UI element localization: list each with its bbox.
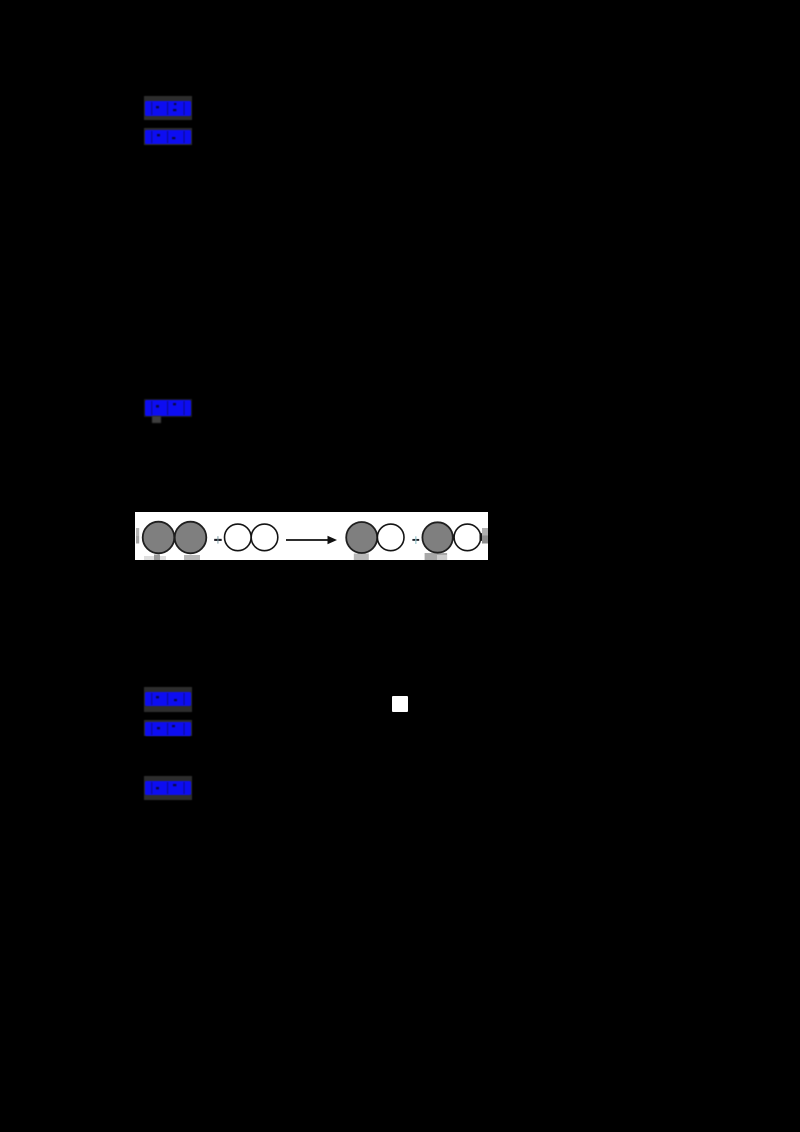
product2 white atom — [454, 524, 481, 551]
right edge dark contact dot — [480, 533, 483, 541]
link 3 blue text blob — [144, 399, 192, 417]
product1 gray atom — [346, 522, 377, 553]
link 3 descender tail — [152, 416, 161, 423]
link 6 blue text blob — [144, 780, 192, 796]
label mark under product1 gray atom — [354, 554, 369, 561]
link 1 blue text blob — [144, 100, 192, 117]
link 5 halo box — [144, 720, 192, 736]
reaction arrow — [286, 539, 329, 541]
link 3 halo box — [144, 399, 192, 417]
left edge cropped glyph tab — [136, 528, 139, 536]
molecule diagram white strip — [135, 512, 488, 560]
answer white square — [392, 696, 408, 712]
link 2 halo box — [144, 128, 192, 145]
link 4 blue text blob — [144, 691, 192, 707]
label mark under gray atom A2 — [184, 555, 200, 560]
link 4 halo box — [144, 687, 192, 712]
label mark under gray atom A1 — [144, 556, 166, 560]
label mark under product2 gray atom — [425, 553, 448, 560]
white background of diagram — [135, 512, 488, 560]
white atom B1 — [225, 524, 252, 551]
product2 gray atom — [422, 522, 452, 552]
link 1 halo box — [144, 96, 192, 120]
plus sign 1 — [214, 539, 222, 541]
gray atom A1 — [143, 522, 175, 554]
plus sign 2 — [412, 539, 419, 541]
link 5 blue text blob — [144, 721, 192, 737]
gray atom A2 — [175, 522, 207, 554]
right edge cropped glyph tab — [482, 528, 488, 536]
white atom B2 — [251, 524, 278, 551]
link 2 blue text blob — [144, 129, 192, 145]
link 6 halo box — [144, 776, 192, 800]
product1 white atom — [377, 524, 404, 551]
